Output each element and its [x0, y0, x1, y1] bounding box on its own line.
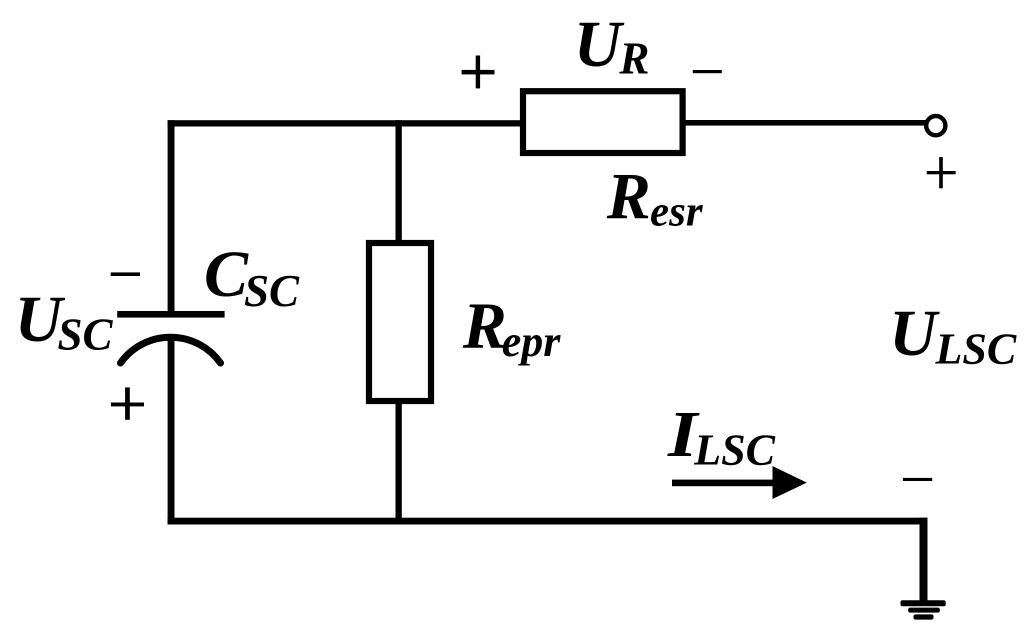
label ULSC: [889, 297, 1017, 373]
svg-text:LSC: LSC: [935, 324, 1017, 373]
capacitor Csc curved bottom plate: [121, 337, 221, 363]
minus sign at Resr right (-): [693, 70, 722, 73]
svg-text:U: U: [574, 8, 625, 81]
label ILSC: [667, 398, 776, 475]
resistor Repr body: [369, 243, 431, 401]
wire: left vertical lower (Csc arc to bottom rail): [168, 334, 175, 525]
svg-text:R: R: [618, 34, 649, 84]
svg-text:SC: SC: [244, 266, 300, 316]
svg-text:esr: esr: [650, 189, 704, 236]
wire: middle vertical upper (top rail to Repr): [396, 120, 402, 243]
label CSC: [204, 238, 300, 316]
current arrow ILSC shaft: [672, 480, 777, 487]
label UR: [574, 8, 650, 84]
resistor Resr body: [523, 91, 683, 153]
label USC: [15, 283, 114, 360]
wire: bottom rail: [168, 518, 927, 525]
plus sign below Csc (+): [111, 387, 144, 419]
wire: middle vertical lower (Repr to bottom rail): [396, 401, 402, 525]
terminal node circle ULSC+: [926, 116, 945, 135]
wire: top rail left segment (node to Resr): [168, 120, 526, 126]
svg-text:SC: SC: [58, 310, 114, 360]
svg-text:U: U: [889, 297, 940, 370]
svg-text:R: R: [606, 160, 651, 233]
svg-text:epr: epr: [502, 317, 562, 366]
minus sign above Csc (-): [111, 272, 140, 276]
label Resr: [606, 160, 704, 236]
minus sign above ground (-): [903, 478, 932, 481]
svg-text:C: C: [204, 238, 249, 311]
ground symbol bars: [901, 600, 946, 619]
current arrow ILSC head: [773, 466, 807, 499]
wire: ground stem vertical: [920, 518, 928, 603]
svg-text:LSC: LSC: [693, 426, 775, 475]
capacitor Csc top plate: [117, 311, 224, 318]
svg-text:R: R: [462, 290, 507, 363]
plus sign below terminal (+): [927, 157, 956, 188]
wire: left vertical upper (top rail to Csc top plate): [168, 120, 175, 313]
plus sign at Resr left (+): [462, 56, 495, 89]
label Repr: [462, 290, 562, 367]
wire: top rail right segment (Resr to terminal): [683, 120, 926, 126]
